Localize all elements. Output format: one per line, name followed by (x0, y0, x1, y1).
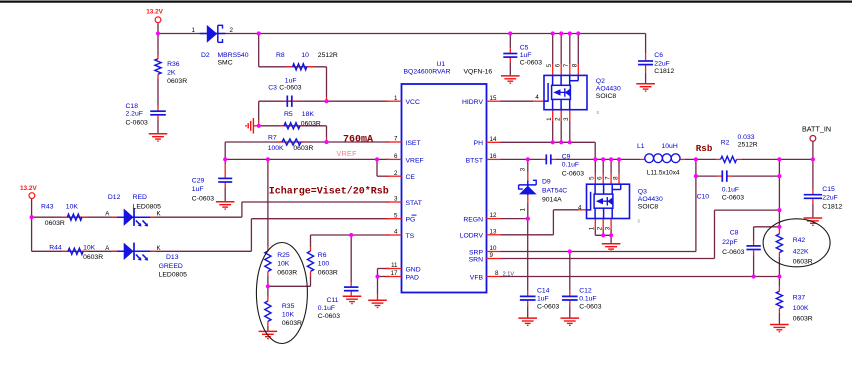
svg-text:C8: C8 (730, 230, 739, 237)
svg-text:3: 3 (520, 167, 527, 171)
svg-text:4: 4 (578, 204, 582, 211)
svg-text:7: 7 (604, 176, 611, 180)
svg-text:6: 6 (555, 63, 562, 67)
svg-text:BQ24600RVAR: BQ24600RVAR (404, 69, 451, 76)
svg-text:22uF: 22uF (822, 195, 838, 202)
svg-text:3: 3 (394, 196, 398, 203)
svg-text:0.1uF: 0.1uF (318, 305, 335, 312)
svg-text:R42: R42 (793, 237, 806, 244)
svg-text:Q2: Q2 (596, 78, 605, 85)
svg-text:Icharge=Viset/20*Rsb: Icharge=Viset/20*Rsb (269, 186, 389, 198)
svg-text:0603R: 0603R (277, 269, 297, 276)
svg-text:18K: 18K (302, 111, 315, 118)
svg-text:R5: R5 (284, 111, 293, 118)
svg-text:8: 8 (612, 176, 619, 180)
svg-text:10: 10 (301, 52, 309, 59)
svg-text:100K: 100K (268, 145, 284, 152)
svg-text:AO4430: AO4430 (596, 86, 621, 93)
svg-text:0603R: 0603R (45, 220, 65, 227)
svg-text:100K: 100K (793, 305, 809, 312)
svg-text:LED0805: LED0805 (159, 272, 188, 279)
svg-text:C3: C3 (268, 85, 277, 92)
svg-text:8: 8 (572, 63, 579, 67)
svg-text:D13: D13 (166, 254, 179, 261)
svg-text:R36: R36 (167, 61, 180, 68)
svg-text:C-0603: C-0603 (318, 313, 341, 320)
svg-text:VREF: VREF (337, 151, 357, 158)
svg-text:K: K (157, 211, 161, 218)
svg-text:Rsb: Rsb (696, 143, 713, 154)
svg-text:D9: D9 (542, 178, 551, 185)
svg-text:0603R: 0603R (83, 254, 103, 261)
svg-text:C29: C29 (192, 177, 205, 184)
svg-text:0603R: 0603R (282, 320, 302, 327)
svg-text:HIDRV: HIDRV (462, 99, 483, 106)
svg-text:13.2V: 13.2V (20, 185, 37, 192)
svg-text:C11: C11 (327, 297, 339, 304)
svg-text:17: 17 (391, 270, 398, 277)
svg-text:C6: C6 (654, 52, 663, 59)
svg-text:5: 5 (546, 63, 553, 67)
svg-text:SMC: SMC (218, 60, 233, 67)
svg-text:C-0603: C-0603 (722, 194, 745, 201)
svg-text:C14: C14 (537, 288, 550, 295)
svg-text:SRP: SRP (469, 249, 483, 256)
svg-text:REGN: REGN (463, 217, 483, 224)
svg-text:LED0805: LED0805 (133, 203, 162, 210)
svg-text:ISET: ISET (406, 140, 421, 147)
svg-text:C1812: C1812 (654, 68, 674, 75)
svg-text:1: 1 (546, 117, 553, 121)
svg-text:L11.5x10x4: L11.5x10x4 (647, 170, 680, 177)
svg-text:10uH: 10uH (662, 143, 678, 150)
svg-text:C1812: C1812 (822, 203, 842, 210)
svg-text:C10: C10 (697, 193, 710, 200)
svg-text:9014A: 9014A (542, 196, 562, 203)
svg-text:R35: R35 (282, 303, 295, 310)
svg-text:1uF: 1uF (285, 77, 297, 84)
svg-text:CE: CE (406, 174, 416, 181)
svg-text:1: 1 (589, 226, 596, 230)
svg-text:C-0603: C-0603 (579, 303, 602, 310)
svg-text:SRN: SRN (469, 256, 483, 263)
svg-text:22pF: 22pF (722, 239, 738, 246)
svg-text:VQFN-16: VQFN-16 (464, 69, 493, 76)
svg-text:C-0603: C-0603 (279, 85, 302, 92)
svg-text:SOIC8: SOIC8 (596, 93, 617, 100)
svg-text:760mA: 760mA (343, 135, 373, 146)
svg-text:PG: PG (406, 217, 416, 224)
svg-text:SOIC8: SOIC8 (638, 204, 659, 211)
svg-text:BATT_IN: BATT_IN (802, 125, 831, 134)
svg-text:R7: R7 (268, 135, 277, 142)
svg-text:0603R: 0603R (318, 269, 338, 276)
svg-text:0603R: 0603R (793, 259, 813, 266)
svg-text:R2: R2 (721, 140, 730, 147)
svg-text:10: 10 (490, 245, 497, 252)
svg-text:STAT: STAT (406, 200, 422, 207)
svg-text:0603R: 0603R (293, 145, 313, 152)
svg-text:U1: U1 (437, 61, 446, 68)
svg-text:0603R: 0603R (301, 120, 321, 127)
svg-text:3: 3 (563, 117, 570, 121)
svg-text:R25: R25 (277, 252, 290, 259)
svg-text:C-0603: C-0603 (192, 195, 215, 202)
svg-text:R43: R43 (41, 203, 54, 210)
svg-text:TS: TS (406, 233, 415, 240)
svg-text:1uF: 1uF (537, 295, 549, 302)
svg-text:2: 2 (230, 27, 234, 34)
svg-text:D12: D12 (108, 194, 121, 201)
svg-text:2: 2 (597, 226, 604, 230)
svg-text:1: 1 (520, 208, 527, 212)
svg-text:7: 7 (394, 136, 398, 143)
svg-text:100: 100 (318, 261, 330, 268)
svg-text:8: 8 (495, 270, 499, 277)
svg-text:C-0603: C-0603 (126, 119, 149, 126)
svg-text:K: K (157, 245, 161, 252)
svg-text:R8: R8 (276, 52, 285, 59)
svg-text:L1: L1 (637, 143, 645, 150)
svg-text:R6: R6 (318, 252, 327, 259)
svg-text:GREED: GREED (159, 263, 183, 270)
svg-text:10K: 10K (83, 244, 96, 251)
svg-text:2: 2 (394, 170, 398, 177)
svg-text:BTST: BTST (466, 157, 483, 164)
svg-text:0603R: 0603R (167, 78, 187, 85)
svg-text:1uF: 1uF (192, 186, 204, 193)
svg-text:VFB: VFB (470, 274, 484, 281)
svg-text:LODRV: LODRV (460, 233, 484, 240)
svg-text:C15: C15 (822, 186, 835, 193)
svg-text:GND: GND (406, 266, 421, 273)
svg-text:22uF: 22uF (654, 60, 670, 67)
svg-text:C12: C12 (579, 288, 592, 295)
svg-text:BAT54C: BAT54C (542, 187, 567, 194)
svg-text:14: 14 (490, 136, 497, 143)
svg-text:C5: C5 (520, 44, 529, 51)
svg-text:9: 9 (490, 252, 494, 259)
svg-text:0603R: 0603R (793, 316, 813, 323)
svg-text:10K: 10K (282, 312, 295, 319)
svg-text:11: 11 (391, 262, 398, 269)
svg-text:MBRS540: MBRS540 (218, 52, 249, 59)
svg-text:R37: R37 (793, 294, 806, 301)
svg-text:0.1uF: 0.1uF (579, 295, 596, 302)
svg-text:13.2V: 13.2V (146, 8, 163, 15)
svg-text:0.1uF: 0.1uF (562, 162, 579, 169)
svg-text:C-0603: C-0603 (537, 303, 560, 310)
svg-text:PAD: PAD (406, 274, 420, 281)
svg-text:C18: C18 (126, 103, 139, 110)
svg-text:2512R: 2512R (738, 142, 758, 149)
svg-text:5: 5 (589, 176, 596, 180)
svg-text:1: 1 (192, 27, 196, 34)
svg-text:2: 2 (555, 117, 562, 121)
svg-text:C-0603: C-0603 (520, 60, 543, 67)
svg-text:15: 15 (490, 95, 497, 102)
svg-text:VCC: VCC (406, 99, 420, 106)
svg-text:R44: R44 (49, 244, 62, 251)
svg-text:422K: 422K (793, 249, 809, 256)
svg-text:AO4430: AO4430 (638, 196, 663, 203)
svg-text:0.1uF: 0.1uF (722, 187, 739, 194)
svg-text:10K: 10K (66, 203, 79, 210)
svg-text:0.033: 0.033 (738, 134, 755, 141)
svg-text:2.1V: 2.1V (503, 271, 515, 277)
svg-text:6: 6 (597, 176, 604, 180)
svg-text:4: 4 (535, 94, 539, 101)
svg-text:C-0603: C-0603 (722, 249, 745, 256)
svg-text:16: 16 (490, 153, 497, 160)
svg-text:6: 6 (394, 153, 398, 160)
svg-text:3: 3 (604, 226, 611, 230)
svg-text:2.2uF: 2.2uF (126, 111, 143, 118)
svg-text:C-0603: C-0603 (562, 170, 585, 177)
svg-text:1: 1 (394, 95, 398, 102)
svg-text:VREF: VREF (406, 157, 424, 164)
svg-text:Q3: Q3 (638, 188, 647, 195)
svg-text:1uF: 1uF (520, 52, 532, 59)
svg-text:2K: 2K (167, 70, 176, 77)
svg-text:4: 4 (394, 229, 398, 236)
svg-text:D2: D2 (201, 52, 210, 59)
svg-text:PH: PH (474, 140, 484, 147)
svg-text:10K: 10K (277, 261, 290, 268)
svg-text:7: 7 (563, 63, 570, 67)
svg-text:C9: C9 (562, 153, 571, 160)
svg-text:13: 13 (490, 228, 497, 235)
svg-text:12: 12 (490, 212, 497, 219)
svg-text:5: 5 (394, 212, 398, 219)
svg-text:RED: RED (133, 194, 147, 201)
svg-text:2512R: 2512R (318, 52, 338, 59)
